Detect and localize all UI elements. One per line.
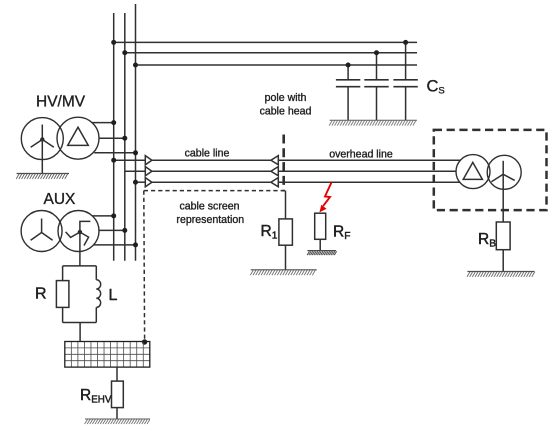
wire overhead line phase C	[278, 181, 460, 183]
svg-text:cable head: cable head	[260, 106, 312, 118]
ground capacitors	[329, 120, 417, 125]
wire AUX phase C	[94, 244, 136, 246]
resistor RB	[496, 222, 510, 250]
ground REHV	[85, 419, 150, 424]
svg-text:REHV: REHV	[80, 387, 112, 406]
wire cable line phase B	[125, 170, 146, 172]
resistor REHV	[112, 381, 124, 408]
svg-text:HV/MV: HV/MV	[36, 94, 86, 111]
wye symbol remote	[491, 161, 514, 182]
dashed box feeding network	[434, 130, 547, 210]
node cable screen to grid	[142, 339, 147, 344]
wire overhead line phase A	[278, 159, 460, 161]
ground RF	[307, 251, 336, 256]
cable head left A	[145, 156, 152, 165]
wye symbol AUX	[31, 219, 53, 241]
cable screen dashed vertical	[143, 191, 146, 340]
svg-text:overhead line: overhead line	[329, 149, 393, 161]
svg-text:CS: CS	[427, 78, 445, 97]
svg-text:AUX: AUX	[44, 191, 77, 208]
cable head right C	[271, 178, 278, 187]
pole marker dashed	[282, 135, 285, 192]
lightning stroke arrow	[319, 182, 331, 212]
node AUX-bus1	[111, 213, 116, 218]
resistor RF	[315, 213, 326, 250]
busbar 2	[124, 13, 126, 261]
earthing grid mesh	[65, 342, 150, 368]
transformer HV/MV secondary winding	[57, 117, 99, 159]
node HV/MV-bus1	[111, 120, 116, 125]
svg-text:cable line: cable line	[185, 148, 230, 160]
svg-text:R: R	[35, 286, 47, 303]
busbar 1	[113, 13, 115, 261]
node cable-bus1	[111, 158, 116, 163]
delta symbol HV/MV	[68, 127, 89, 145]
wire RL bottom tee	[63, 322, 97, 324]
wire AUX neutral down	[79, 232, 81, 266]
svg-text:L: L	[109, 287, 118, 304]
wire cable line phase A	[114, 159, 146, 161]
wire remote neutral to RB	[502, 174, 504, 222]
transformer AUX secondary winding zigzag	[58, 211, 99, 252]
wire HV/MV phase B	[99, 137, 125, 139]
wire HV/MV phase C	[94, 152, 135, 154]
resistor R	[56, 266, 69, 323]
node cable-bus3	[133, 180, 138, 185]
resistor R1	[279, 191, 293, 270]
svg-text:pole with: pole with	[265, 92, 307, 104]
transformer remote wye winding	[487, 155, 521, 189]
wire grid to REHV	[116, 367, 118, 381]
capacitor Cs phase B	[364, 50, 388, 120]
ground HV/MV	[16, 174, 69, 179]
ground R1	[250, 270, 316, 275]
node bus3-top	[133, 63, 138, 68]
wye symbol HV/MV	[31, 125, 54, 148]
capacitor Cs phase A	[393, 40, 417, 120]
delta symbol remote	[463, 162, 482, 179]
wire HV/MV neutral to ground	[41, 140, 43, 174]
svg-text:representation: representation	[176, 214, 244, 226]
wire RL top tee	[63, 265, 97, 267]
busbar 3	[135, 4, 137, 261]
inductor L	[96, 266, 100, 323]
transformer remote delta winding	[456, 155, 490, 189]
capacitor Cs phase C	[336, 63, 360, 121]
wire cable line phase C	[136, 181, 146, 183]
svg-text:RB: RB	[478, 231, 496, 250]
node HV/MV-bus2	[122, 136, 127, 141]
cable head right B	[271, 167, 278, 176]
node HV/MV-bus3	[133, 150, 138, 155]
cable head left B	[145, 167, 152, 176]
node AUX-bus3	[133, 242, 138, 247]
wire phase C to capacitors	[136, 64, 418, 66]
cable head right A	[271, 156, 278, 165]
svg-text:cable screen: cable screen	[179, 201, 239, 213]
wire HV/MV phase A	[92, 122, 114, 124]
wire AUX phase A	[92, 215, 113, 217]
svg-text:R1: R1	[261, 223, 278, 242]
node bus1-top	[111, 40, 116, 45]
wire phase A to capacitors	[114, 41, 417, 43]
node bus2-top	[122, 50, 127, 55]
transformer HV/MV primary winding	[21, 118, 63, 160]
cable head left C	[145, 178, 152, 187]
ground RB	[467, 272, 535, 277]
cable screen dashed horizontal	[144, 190, 286, 192]
node AUX-bus2	[122, 228, 127, 233]
wire AUX phase B	[99, 229, 125, 231]
wire phase B to capacitors	[125, 52, 417, 54]
wire to earthing grid	[79, 323, 81, 342]
transformer AUX primary winding	[21, 211, 62, 252]
wire overhead line phase B	[278, 170, 456, 172]
svg-text:RF: RF	[333, 224, 350, 243]
